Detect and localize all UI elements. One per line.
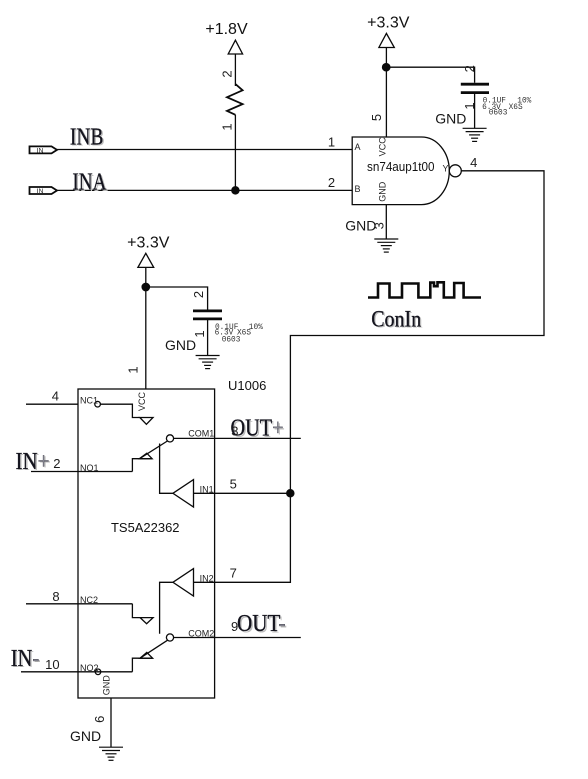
junction dot +3.3V/capacitor	[383, 63, 390, 70]
svg-text:8: 8	[52, 589, 59, 604]
svg-text:INA: INA	[72, 170, 107, 196]
svg-text:+1.8V: +1.8V	[205, 21, 248, 38]
gate output bubble	[449, 165, 461, 177]
svg-text:0603: 0603	[489, 109, 508, 117]
pin 10 (NO2 / IN-) wire	[21, 671, 132, 673]
chip U1006 TS5A22362 body	[78, 389, 215, 698]
wire +1.8V to resistor pin 2	[234, 54, 236, 86]
pin 8 (NC2) wire	[26, 603, 132, 605]
ground symbol (chip)	[99, 747, 123, 760]
IN1 pin 5 wire (inside)	[194, 492, 215, 494]
svg-text:1: 1	[125, 366, 140, 373]
svg-text:VCC: VCC	[137, 392, 147, 412]
svg-text:GND: GND	[435, 110, 466, 126]
NAND gate U? sn74aup1t00 body	[352, 137, 449, 205]
wire INA to gate pin B	[57, 189, 352, 191]
ground symbol (middle capacitor)	[196, 356, 220, 369]
square wave symbol ConIn	[368, 282, 481, 297]
svg-text:INB: INB	[70, 124, 104, 150]
svg-text:NO2: NO2	[80, 663, 99, 673]
svg-text:U1006: U1006	[228, 378, 266, 393]
COM1 / OUT+ wire pin 3	[174, 437, 301, 439]
svg-text:4: 4	[52, 388, 59, 403]
IN1 buffer triangle	[173, 480, 194, 507]
svg-text:3: 3	[231, 424, 238, 439]
ground symbol (gate)	[374, 239, 398, 252]
svg-text:A: A	[355, 142, 361, 152]
switch 2 control wire	[160, 582, 173, 634]
pin 2 (NO1 / IN+) wire	[31, 471, 132, 473]
svg-text:1: 1	[328, 134, 335, 149]
svg-text:GND: GND	[101, 675, 111, 696]
svg-text:COM1: COM1	[188, 428, 214, 438]
capacitor 0.1uF (top right) plates	[461, 83, 489, 86]
wire resistor pin 1 to INA net	[234, 115, 236, 191]
svg-text:IN: IN	[37, 188, 44, 195]
IN2 pin 7 wire (inside)	[194, 581, 215, 583]
NO1 internal step wire	[132, 459, 152, 472]
COM2 / OUT- wire pin 9	[174, 637, 301, 639]
svg-text:B: B	[355, 184, 361, 194]
svg-text:GND: GND	[70, 728, 101, 744]
junction dot +3.3V/capacitor2	[142, 283, 149, 290]
power +1.8V symbol	[228, 40, 242, 54]
svg-text:NC2: NC2	[80, 595, 98, 605]
resistor (pull-up, pins 1-2)	[227, 84, 243, 115]
svg-text:+3.3V: +3.3V	[127, 234, 170, 251]
COM1 circle	[166, 435, 173, 442]
svg-text:+3.3V: +3.3V	[367, 14, 410, 31]
svg-text:VCC: VCC	[378, 137, 388, 157]
svg-text:GND: GND	[165, 337, 196, 353]
chip GND pin 6 wire	[110, 698, 112, 747]
svg-text:9: 9	[231, 619, 238, 634]
wire IN1 pin 5 to ConIn net	[215, 492, 291, 494]
wire +3.3V to gate VCC pin 5	[385, 48, 387, 138]
svg-text:7: 7	[230, 566, 237, 581]
svg-text:10: 10	[45, 657, 59, 672]
svg-text:1: 1	[219, 123, 234, 130]
svg-text:IN+: IN+	[16, 449, 50, 475]
capacitor2 0.1uF plates	[193, 309, 222, 312]
svg-text:IN: IN	[37, 147, 44, 154]
gate GND pin wire	[385, 205, 387, 239]
switch 2 arm	[140, 640, 167, 658]
COM2 circle	[166, 634, 173, 641]
svg-text:IN2: IN2	[200, 574, 214, 584]
NC2 internal step wire	[132, 604, 140, 618]
svg-text:1: 1	[462, 102, 477, 109]
wire capacitor pin 1 to ground	[474, 93, 476, 129]
port INB	[30, 146, 58, 153]
svg-text:IN-: IN-	[11, 646, 39, 672]
svg-text:OUT-: OUT-	[237, 611, 286, 637]
power +3.3V symbol (middle)	[138, 253, 154, 267]
junction dot ConIn/IN1	[287, 490, 294, 497]
junction dot resistor/INA	[232, 187, 239, 194]
wire +3.3V to chip VCC pin 1	[145, 267, 147, 389]
svg-text:NC1: NC1	[80, 396, 98, 406]
svg-text:2: 2	[462, 65, 477, 72]
svg-text:GND: GND	[378, 181, 388, 202]
IN2 buffer triangle	[173, 569, 194, 596]
svg-text:sn74aup1t00: sn74aup1t00	[367, 160, 435, 174]
svg-text:Y: Y	[443, 164, 449, 174]
pin 4 (NC1) wire	[26, 403, 78, 405]
wire junction to capacitor2 pin 2	[146, 287, 208, 310]
switch 1 control wire	[160, 444, 173, 494]
svg-text:NO1: NO1	[80, 463, 99, 473]
svg-text:TS5A22362: TS5A22362	[111, 521, 180, 535]
port INA	[30, 187, 58, 194]
svg-text:6: 6	[92, 716, 107, 723]
svg-text:X6S: X6S	[509, 104, 523, 112]
svg-text:2: 2	[328, 175, 335, 190]
switch 1 arrowhead	[140, 453, 153, 459]
svg-text:IN1: IN1	[200, 485, 214, 495]
svg-text:2: 2	[53, 456, 60, 471]
svg-text:5: 5	[230, 477, 237, 492]
wire junction to capacitor pin 2	[386, 67, 474, 83]
wire capacitor2 pin 1 to ground	[207, 319, 209, 356]
NO2 unconnected circle	[95, 669, 101, 675]
svg-text:COM2: COM2	[188, 628, 214, 638]
NC1 unconnected circle	[95, 401, 101, 407]
power +3.3V symbol (top)	[379, 33, 394, 47]
NC1 contact triangle	[140, 418, 153, 425]
svg-text:ConIn: ConIn	[371, 306, 421, 332]
svg-text:5: 5	[369, 114, 384, 121]
NC2 contact triangle	[140, 618, 153, 624]
svg-text:4: 4	[470, 155, 477, 170]
NO2 internal step wire	[132, 658, 152, 672]
wire gate output pin 4 / ConIn net to chip IN pins	[215, 171, 544, 583]
svg-text:3: 3	[371, 222, 386, 229]
svg-text:2: 2	[191, 291, 206, 298]
svg-text:2: 2	[219, 70, 234, 77]
NC1 internal wire	[100, 404, 139, 417]
svg-text:0603: 0603	[222, 337, 241, 345]
wire INB to gate pin A	[57, 149, 352, 151]
ground symbol (top-right capacitor)	[463, 128, 487, 141]
switch 2 arrowhead	[140, 652, 153, 658]
switch 1 arm	[140, 441, 168, 459]
